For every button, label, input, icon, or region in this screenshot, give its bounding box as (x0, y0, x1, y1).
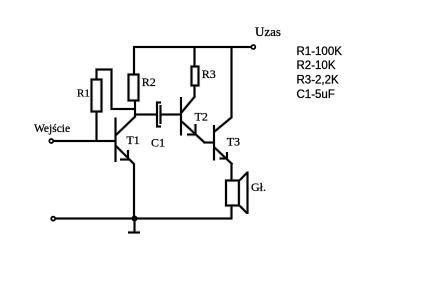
halo pass (49, 45, 255, 232)
main ink pass (49, 45, 255, 232)
svg-text:R2-10K: R2-10K (297, 60, 336, 72)
svg-text:T2: T2 (195, 110, 208, 124)
svg-text:Gł.: Gł. (251, 180, 266, 194)
svg-text:C1: C1 (151, 135, 165, 149)
svg-text:T1: T1 (126, 133, 139, 147)
svg-text:T3: T3 (227, 135, 240, 149)
svg-text:R1-100K: R1-100K (297, 46, 343, 58)
svg-text:Wejście: Wejście (34, 123, 70, 135)
svg-text:R3: R3 (202, 67, 216, 81)
svg-text:R3-2,2K: R3-2,2K (297, 75, 340, 87)
svg-text:C1-5uF: C1-5uF (297, 89, 335, 101)
svg-text:Uzas: Uzas (255, 24, 281, 39)
svg-text:R2: R2 (142, 75, 156, 89)
svg-text:R1: R1 (77, 87, 90, 99)
